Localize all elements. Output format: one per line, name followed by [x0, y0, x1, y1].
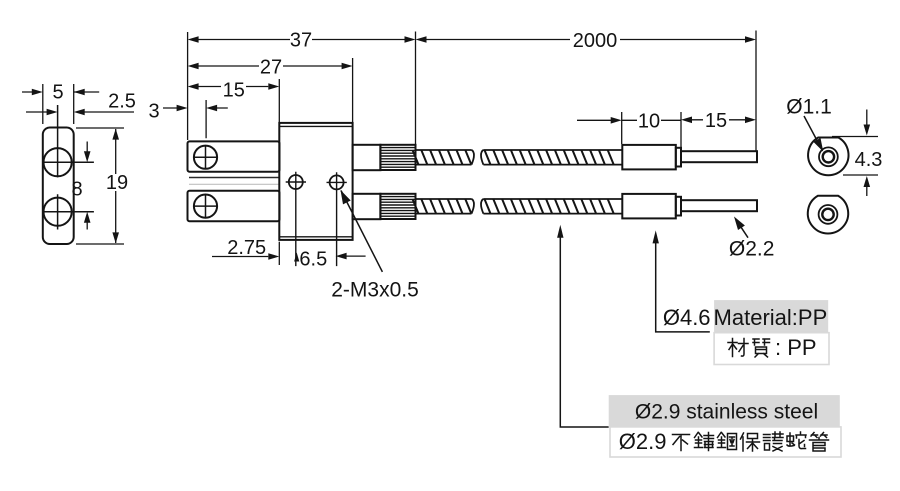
- dim 19 ext lines: [76, 128, 124, 244]
- label CJK material: [728, 335, 817, 360]
- svg-text:Ø2.2: Ø2.2: [729, 238, 775, 261]
- svg-text:2.75: 2.75: [227, 237, 266, 259]
- text zhi: [753, 339, 770, 357]
- body screw right: [330, 175, 344, 189]
- hole top circle: [44, 148, 72, 176]
- body screw left: [289, 175, 303, 189]
- conduit bottom segment 1: [416, 199, 474, 214]
- arrowhead dim27 left: [188, 63, 199, 70]
- dim 37 line: [198, 39, 405, 41]
- arrowhead dim4.3 bottom: [864, 176, 871, 187]
- dim 15b line: [692, 119, 745, 121]
- arrowhead dim15b left: [681, 117, 692, 124]
- arrowhead dim2.5 left: [47, 109, 58, 116]
- svg-text:2.5: 2.5: [108, 91, 136, 113]
- text cai: [728, 339, 748, 357]
- arrowhead dim8 top: [84, 151, 91, 162]
- arrowhead dim3 left: [177, 105, 188, 112]
- arm bottom screw circle: [194, 195, 217, 218]
- mounting plate outline: [43, 128, 74, 245]
- dim 10 line: [577, 119, 681, 121]
- hole bottom circle: [44, 198, 72, 226]
- arm top: [188, 141, 280, 171]
- arm top screw circle: [194, 146, 217, 169]
- hole top crosshair: [44, 105, 94, 177]
- text bao: [741, 433, 760, 451]
- dim 4.3 ext lines: [832, 137, 878, 176]
- box material gray: [714, 300, 828, 333]
- svg-text:27: 27: [260, 57, 282, 79]
- svg-text:Ø2.9 stainless steel: Ø2.9 stainless steel: [635, 401, 818, 424]
- dim 15 line: [198, 86, 268, 88]
- arrowhead dim6.5 left: [336, 253, 347, 260]
- svg-text:8: 8: [71, 179, 82, 201]
- svg-text:6.5: 6.5: [299, 248, 327, 270]
- leader dia2.2: [737, 220, 749, 237]
- body block: [279, 123, 352, 240]
- arrowhead dim19 bottom: [112, 232, 119, 243]
- sleeve end top: [622, 145, 676, 170]
- arrowhead leader dia1.1: [813, 138, 823, 152]
- thread lines top: [380, 148, 415, 168]
- arrowhead leader dia2.9: [557, 225, 563, 238]
- label CJK steel: [619, 429, 829, 454]
- arrowhead dim19 top: [112, 129, 119, 140]
- dim 8 line: [86, 142, 88, 230]
- svg-text:Ø1.1: Ø1.1: [786, 96, 832, 119]
- dim 2.5 lines: [26, 111, 134, 113]
- ext lines left view dim5: [43, 84, 74, 124]
- svg-text:5: 5: [52, 82, 63, 104]
- svg-text:15: 15: [705, 110, 727, 132]
- box steel gray: [609, 395, 840, 427]
- svg-text:Material:PP: Material:PP: [714, 305, 828, 330]
- svg-text:10: 10: [638, 110, 660, 132]
- thread block top: [380, 145, 415, 170]
- svg-text:Ø4.6: Ø4.6: [663, 305, 711, 330]
- text guan: [810, 433, 829, 452]
- dim 6.5 arrow line: [346, 255, 366, 257]
- sleeve plain bottom: [353, 194, 381, 219]
- arrowhead leader dia4.6: [653, 230, 659, 243]
- arm top screw crosshair: [194, 146, 217, 169]
- hatch bottom segment2: [485, 199, 614, 214]
- arrowheads: [32, 36, 870, 261]
- svg-text:2000: 2000: [573, 30, 618, 52]
- text bu: [673, 435, 690, 451]
- arrowhead dim2.75 right: [268, 253, 279, 260]
- leader dia4.6: [656, 235, 710, 332]
- arrowhead dim2000 right: [745, 36, 756, 43]
- tip rod bottom: [681, 200, 757, 211]
- thread block bottom: [380, 194, 415, 219]
- conduit bottom segment 2: [481, 199, 622, 214]
- hole bottom crosshair: [44, 194, 94, 229]
- main ext lines: [188, 31, 756, 151]
- leader 2-M3: [341, 191, 382, 272]
- text gang: [718, 433, 737, 450]
- hatch top segment1: [413, 150, 472, 165]
- dim 4.3 arrow lines: [866, 110, 868, 197]
- svg-text:Ø2.9: Ø2.9: [619, 429, 667, 454]
- dim 2000 line: [426, 39, 746, 41]
- svg-text:37: 37: [290, 30, 312, 52]
- slot line light: [189, 183, 279, 185]
- conduit top segment 2: [481, 150, 622, 165]
- arm bottom: [188, 191, 280, 221]
- text hu: [764, 432, 784, 451]
- hatch bottom segment1: [413, 199, 472, 214]
- svg-text:3: 3: [148, 101, 159, 123]
- body inner cap lines: [279, 126, 352, 236]
- hatch top segment2: [485, 150, 614, 165]
- arrowhead dim8 bottom: [84, 212, 91, 223]
- arrowhead dim15 left: [188, 83, 199, 90]
- bottom ext lines: [278, 242, 280, 265]
- dim 2.75 line: [212, 256, 268, 258]
- box steel white: [610, 427, 841, 457]
- arrowhead dim3 right: [206, 105, 217, 112]
- dim 27 line: [198, 65, 342, 67]
- dim 5 arrows: [22, 91, 99, 93]
- arrowhead dim37 right: [405, 36, 416, 43]
- conduit top segment 1: [416, 150, 474, 165]
- leader dia2.9: [560, 229, 608, 427]
- arrowhead leader dia2.2: [734, 217, 745, 231]
- text xiu: [695, 433, 714, 451]
- thread lines bottom: [380, 197, 415, 217]
- dim 19 line: [115, 129, 117, 243]
- arrowhead dim5 right: [74, 89, 85, 96]
- svg-text:19: 19: [106, 172, 128, 194]
- arrowhead dim6.5 up: [294, 253, 299, 262]
- collar bottom: [676, 197, 681, 216]
- arrowhead dim2.5 right: [74, 109, 85, 116]
- arrowhead dim10 left: [611, 117, 622, 124]
- svg-text:4.3: 4.3: [855, 149, 883, 171]
- box material white: [714, 333, 829, 365]
- text she: [787, 432, 806, 449]
- hatch pattern for conduits: [413, 150, 614, 214]
- END VIEW bottom: [808, 196, 848, 234]
- arrowhead leader 2M3: [341, 190, 351, 204]
- leader dia1.1: [804, 116, 820, 146]
- arrowhead dim2000 left: [416, 36, 427, 43]
- arrowhead dim5 left: [32, 89, 43, 96]
- arrowhead dim37 left: [188, 36, 199, 43]
- arm bottom screw crosshair: [194, 195, 217, 218]
- DIMENSIONS: [22, 31, 878, 428]
- END VIEW top: [808, 138, 848, 176]
- arrowhead dim15 right: [268, 83, 279, 90]
- slot line dark: [189, 177, 279, 179]
- svg-text:2-M3x0.5: 2-M3x0.5: [331, 279, 419, 302]
- dim 3 lines: [163, 100, 228, 138]
- tip rod top: [681, 151, 757, 162]
- svg-text:15: 15: [223, 80, 245, 102]
- collar top: [676, 148, 681, 167]
- sleeve plain top: [353, 145, 381, 170]
- arrowhead dim27 right: [342, 63, 353, 70]
- svg-text:: PP: : PP: [775, 335, 817, 360]
- arrowhead dim15b right: [745, 117, 756, 124]
- sleeve end bottom: [622, 194, 676, 219]
- arrowhead dim4.3 top: [864, 125, 871, 136]
